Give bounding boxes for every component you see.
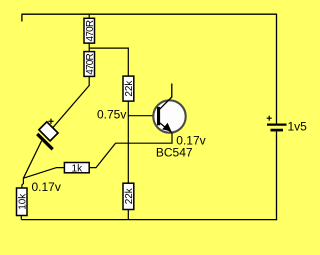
wire: 470R chain down to microphone + plate xyxy=(53,86,89,128)
svg-text:0.75v: 0.75v xyxy=(97,108,126,122)
resistor 10k xyxy=(17,188,29,216)
svg-text:470R: 470R xyxy=(85,53,96,75)
wire: junction down to 10k top xyxy=(22,178,24,185)
battery 1v5 xyxy=(267,116,307,134)
wire: between the two 470R resistors xyxy=(88,43,90,52)
wire: vertical from upper 22k down to lower 22k (through base node) xyxy=(127,101,129,183)
wire: microphone - plate down to lower-left junction xyxy=(23,141,41,178)
resistor 22k (upper) xyxy=(123,76,135,101)
wire: dangling stub at left end of top rail xyxy=(21,14,23,21)
resistor 22k (lower) xyxy=(123,183,135,209)
wire: right rail lower (battery - down to bottom rail) xyxy=(276,132,278,221)
wire: 1k left stub and diagonal to lower-left junction xyxy=(23,168,64,179)
svg-text:1v5: 1v5 xyxy=(288,120,308,134)
wire: bottom rail xyxy=(21,219,277,221)
resistor 470R (upper) xyxy=(84,18,96,43)
electret microphone insert (polarized, tilted) xyxy=(35,122,64,151)
svg-text:22k: 22k xyxy=(124,187,135,204)
wire: 10k bottom to bottom rail xyxy=(20,215,22,220)
wire: emitter down, left, and diagonally to 1k xyxy=(90,133,173,168)
svg-text:470R: 470R xyxy=(85,20,96,42)
wire: top supply rail xyxy=(22,13,277,15)
resistor 1k (horizontal) xyxy=(64,163,89,175)
svg-text:BC547: BC547 xyxy=(156,145,193,159)
wire: below lower 470R xyxy=(88,76,90,86)
transistor Q1 BC547 xyxy=(153,84,185,133)
svg-text:1k: 1k xyxy=(72,163,84,174)
svg-text:22k: 22k xyxy=(124,80,135,97)
wire: top rail to first 470R xyxy=(88,14,90,18)
wire: branch from 470R junction right and down to 22k xyxy=(89,48,128,76)
svg-text:0.17v: 0.17v xyxy=(32,180,61,194)
wire: base wire to transistor xyxy=(128,115,157,117)
resistor 470R (lower) xyxy=(84,52,96,77)
plus sign of microphone xyxy=(48,119,53,124)
svg-text:10k: 10k xyxy=(18,193,29,210)
wire: right rail upper (top rail down to battery +) xyxy=(276,14,278,124)
wire: lower 22k to bottom rail xyxy=(127,210,129,221)
